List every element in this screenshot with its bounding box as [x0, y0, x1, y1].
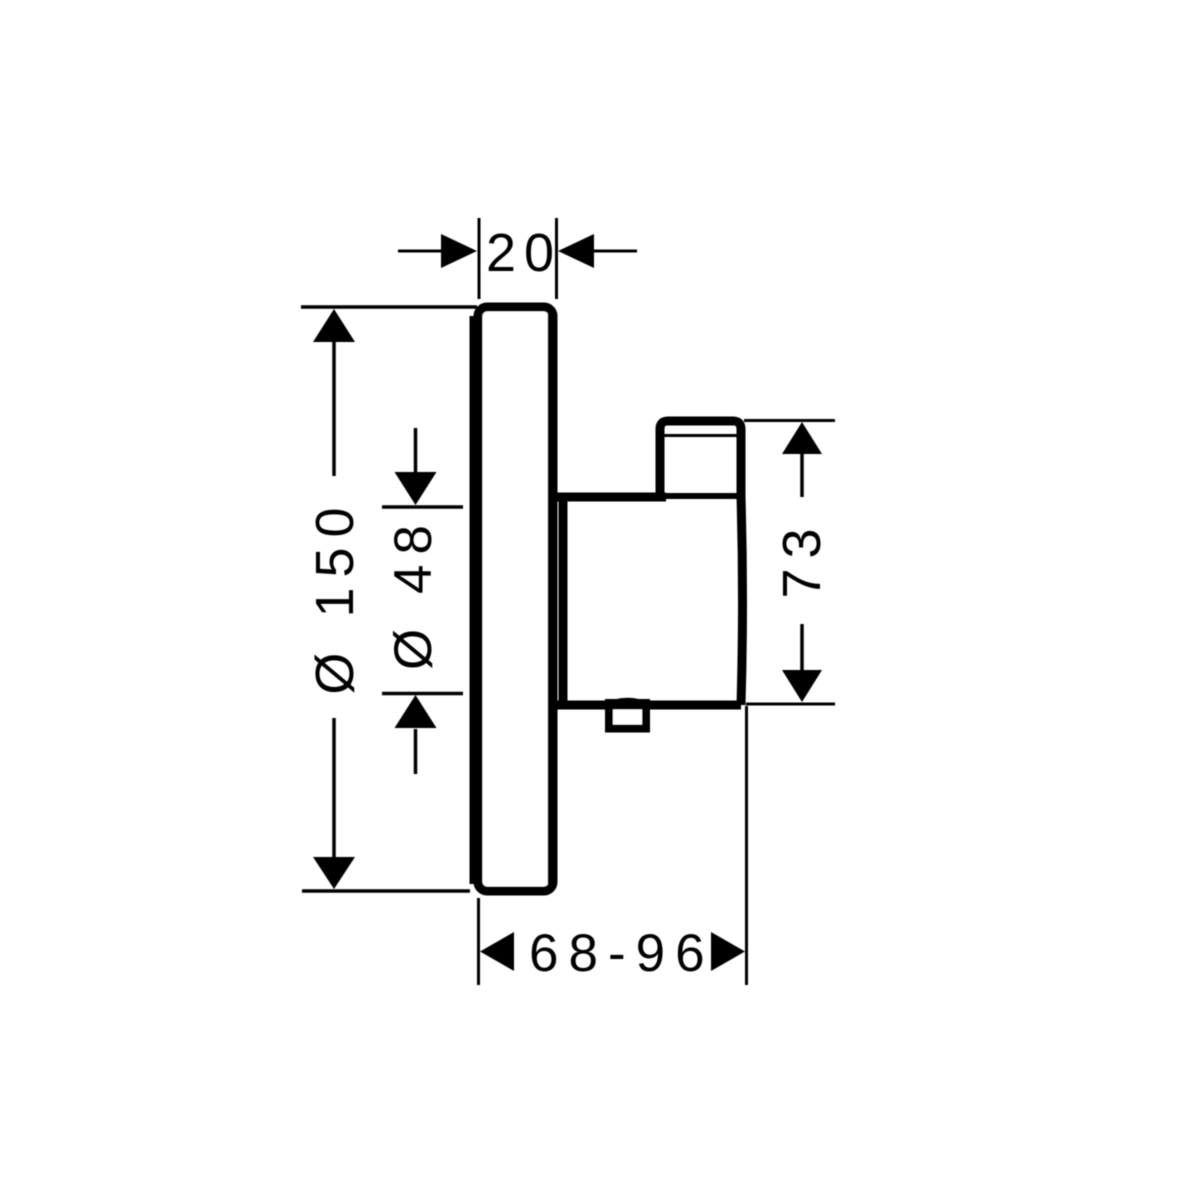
svg-text:Ø 150: Ø 150 [305, 497, 365, 694]
svg-text:20: 20 [486, 223, 562, 283]
svg-text:68-96: 68-96 [529, 924, 715, 983]
svg-text:Ø 48: Ø 48 [384, 515, 443, 670]
svg-text:73: 73 [772, 518, 832, 598]
